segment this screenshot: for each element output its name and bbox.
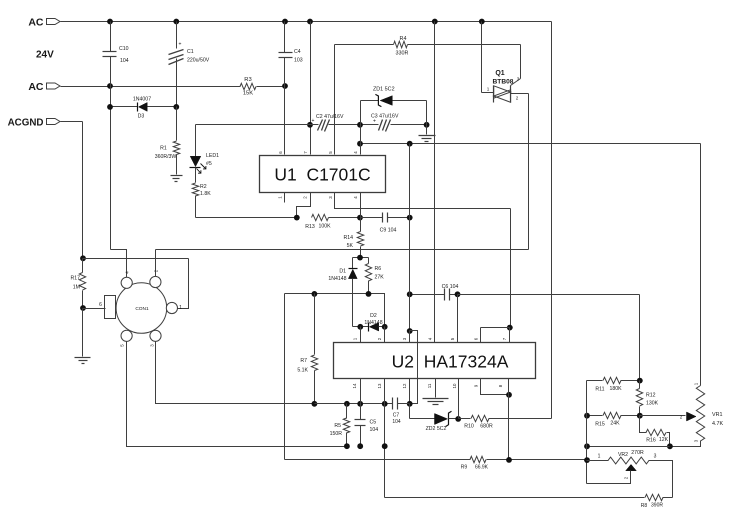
wire U2 pin10 stub: [458, 379, 460, 419]
svg-text:R9: R9: [461, 465, 468, 471]
svg-text:680R: 680R: [480, 424, 493, 430]
resistor R14: [343, 193, 363, 258]
svg-text:ZD1 5C2: ZD1 5C2: [373, 87, 395, 93]
wire AC column to U2 pin4: [434, 22, 436, 343]
resistor R5: [330, 404, 350, 450]
wire CON1 pin5 drop: [127, 342, 347, 447]
svg-text:10: 10: [452, 383, 457, 388]
zener diode ZD2 5C2: [410, 404, 462, 433]
diode D1 1N4148: [328, 258, 357, 327]
wire mid-left column drop: [284, 294, 286, 460]
svg-text:ZD2 5C2: ZD2 5C2: [426, 426, 447, 432]
wire R2 to R13 line: [196, 196, 297, 218]
resistor R7: [297, 294, 317, 407]
wire column 409 with U2 pass-through: [407, 144, 418, 407]
svg-text:+: +: [312, 118, 315, 124]
resistor R13: [305, 214, 363, 230]
svg-text:220u/50V: 220u/50V: [187, 58, 210, 64]
wire AC rail right drop to R10 line: [551, 22, 553, 419]
svg-text:2: 2: [516, 96, 519, 101]
potentiometer VR1 4.7K: [670, 144, 724, 447]
zener diode ZD1 5C2: [361, 87, 427, 125]
wire mid line right segment: [458, 294, 640, 296]
diode D3 1N4007: [107, 97, 179, 120]
svg-text:1: 1: [598, 454, 601, 460]
svg-text:103: 103: [294, 58, 303, 64]
svg-text:330R: 330R: [396, 51, 409, 57]
svg-text:C6 104: C6 104: [442, 284, 459, 290]
svg-text:1N4148: 1N4148: [328, 276, 346, 282]
LED LED1: [190, 125, 220, 174]
wire U2 pin13 column: [384, 379, 386, 498]
svg-text:BTB08: BTB08: [493, 79, 514, 86]
svg-text:390R: 390R: [651, 503, 663, 509]
wire AC top rail: [61, 21, 552, 23]
svg-text:R5: R5: [334, 423, 341, 429]
svg-text:R14: R14: [343, 235, 353, 241]
resistor R1: [155, 107, 180, 175]
svg-text:C3 47u/16V: C3 47u/16V: [371, 114, 399, 120]
capacitor C4: [279, 22, 303, 87]
svg-text:C9 104: C9 104: [380, 228, 397, 234]
svg-text:1.8K: 1.8K: [200, 191, 211, 197]
capacitor C1 (electrolytic): [169, 22, 210, 107]
svg-text:14: 14: [352, 383, 357, 388]
svg-text:24V: 24V: [36, 50, 54, 61]
wire mid right drop: [639, 295, 641, 381]
svg-text:104: 104: [370, 427, 379, 433]
transistor Q1 BTB08 (triac): [487, 70, 520, 103]
svg-text:15K: 15K: [243, 91, 253, 97]
svg-text:360R/3W: 360R/3W: [155, 154, 177, 160]
svg-text:D2: D2: [370, 313, 377, 319]
svg-text:+: +: [179, 42, 182, 48]
resistor R9: [285, 456, 587, 470]
wire U1 pin4 column: [360, 101, 362, 155]
svg-text:12: 12: [402, 383, 407, 388]
wire CON1 pin4 jog: [111, 250, 127, 278]
svg-text:R13: R13: [305, 224, 315, 230]
wire CON1 pin2 to triac: [156, 249, 529, 251]
svg-text:ACGND: ACGND: [8, 118, 44, 129]
wire U1 pin1 stub: [284, 193, 286, 203]
wire U2 pin14 stub: [360, 379, 362, 404]
svg-text:11: 11: [427, 383, 432, 388]
svg-text:3: 3: [654, 454, 657, 460]
wire U1 pin3 drop: [481, 209, 513, 343]
svg-text:100K: 100K: [319, 224, 332, 230]
svg-text:104: 104: [392, 419, 401, 425]
svg-text:R8: R8: [641, 503, 648, 509]
svg-text:12K: 12K: [659, 437, 669, 443]
capacitor C2 (electrolytic): [312, 114, 344, 132]
svg-text:1M: 1M: [73, 285, 80, 291]
svg-text:LED1: LED1: [206, 153, 219, 159]
U2 pass-through wire over box: [417, 343, 419, 379]
svg-text:D1: D1: [339, 269, 346, 275]
resistor R8: [385, 494, 673, 509]
svg-text:130K: 130K: [646, 401, 659, 407]
resistor R6: [365, 258, 384, 294]
svg-text:24K: 24K: [610, 421, 620, 427]
svg-text:R4: R4: [400, 36, 407, 42]
svg-text:104: 104: [120, 58, 129, 64]
U1 top pin labels: [278, 151, 358, 154]
ground at U2 pin11: [423, 399, 449, 405]
capacitor C6: [407, 284, 461, 301]
wire U2 pins8 9 link: [481, 379, 512, 460]
svg-text:R7: R7: [300, 358, 307, 364]
resistor R17: [70, 259, 85, 311]
potentiometer VR2 270R: [587, 450, 673, 498]
svg-text:270R: 270R: [631, 450, 644, 456]
svg-text:150R: 150R: [330, 431, 343, 437]
ground below R17: [75, 309, 91, 364]
diode D2 1N4148: [353, 313, 388, 332]
svg-text:66.9K: 66.9K: [475, 465, 489, 471]
node ACGND (input tag): [8, 118, 60, 129]
svg-text:VR1: VR1: [712, 412, 723, 418]
wire CON1 pin1 link: [178, 259, 189, 309]
svg-text:C1: C1: [187, 49, 194, 55]
wire R17 top line: [80, 122, 188, 262]
resistor R4: [335, 36, 521, 57]
svg-text:R12: R12: [646, 393, 656, 399]
wire U1 pin5 column: [334, 45, 336, 155]
wire mid line left segment: [285, 291, 385, 327]
svg-text:C5: C5: [370, 420, 377, 426]
ground below R1: [171, 176, 183, 182]
wire CON1 pin2 drop: [155, 250, 157, 277]
ground at C3 right: [419, 125, 436, 142]
svg-text:U1 C1701C: U1 C1701C: [274, 165, 370, 185]
wire C7 line: [315, 401, 410, 407]
svg-text:R10: R10: [464, 424, 474, 430]
op-amp U1 C1701C (IC box): [260, 156, 386, 193]
svg-text:1N4007: 1N4007: [133, 97, 151, 103]
label 24V: [36, 50, 54, 61]
wire C10 column lower: [110, 87, 112, 250]
svg-text:R15: R15: [595, 422, 605, 428]
op-amp U2 HA17324A (IC box): [334, 343, 536, 379]
junction dots on AC top rail: [107, 19, 485, 25]
wire pin6 link: [83, 308, 106, 310]
svg-text:AC: AC: [28, 81, 44, 93]
resistor R15: [584, 412, 643, 427]
svg-text:R17: R17: [70, 276, 80, 282]
wire R15 to VR1 wiper: [640, 415, 686, 420]
capacitor C9: [361, 213, 413, 234]
wire U1 pin7 column: [307, 22, 313, 155]
resistor R2: [192, 168, 211, 198]
svg-text:R3: R3: [244, 77, 251, 83]
wire Vcc line y144: [357, 141, 700, 147]
svg-text:VR2: VR2: [618, 452, 628, 458]
svg-text:#5: #5: [206, 161, 212, 167]
resistor R12: [636, 381, 658, 416]
svg-text:R1: R1: [160, 146, 167, 152]
svg-text:C2 47u/16V: C2 47u/16V: [316, 114, 344, 120]
svg-text:2: 2: [680, 415, 683, 420]
wire U2 pin5 stub: [457, 295, 459, 343]
svg-text:5.1K: 5.1K: [297, 368, 308, 374]
wire triac pin1 column: [482, 22, 494, 93]
U2 top pin labels: [353, 337, 508, 340]
wire U1 pin6 column: [284, 87, 286, 155]
wire U2 pin1 stub: [360, 327, 362, 343]
wire U2 pin2 stub: [384, 327, 386, 343]
wire left column right side: [584, 381, 590, 484]
svg-text:13: 13: [377, 383, 382, 388]
svg-text:R6: R6: [375, 266, 382, 272]
capacitor C5: [355, 404, 379, 450]
wire right 446 segment: [584, 443, 669, 449]
resistor R11: [587, 377, 643, 392]
wire U1 pin2 jog: [294, 193, 311, 221]
node AC (second input tag): [28, 81, 60, 93]
wire ACGND stub: [61, 121, 83, 123]
resistor R16: [640, 416, 673, 450]
wire CON1 pin3 drop: [156, 342, 315, 404]
svg-text:AC: AC: [28, 17, 44, 29]
svg-text:180K: 180K: [609, 386, 622, 392]
wire AC2 line: [61, 83, 288, 89]
svg-text:C4: C4: [294, 49, 301, 55]
wire U2 pin11 ground stub: [435, 379, 437, 398]
wire D1 R6 top link: [353, 255, 369, 261]
wire triac pin2 drop: [511, 94, 529, 250]
node AC (top input tag): [28, 17, 60, 29]
connector CON1: [99, 269, 182, 347]
svg-text:27K: 27K: [375, 275, 385, 281]
capacitor C10: [103, 22, 129, 87]
svg-text:5K: 5K: [347, 243, 354, 249]
svg-text:CON1: CON1: [135, 306, 149, 312]
svg-text:R11: R11: [595, 387, 604, 393]
wire U1 pin3 line: [335, 193, 511, 209]
U2 bottom pin labels: [352, 383, 503, 388]
wire gate column: [511, 45, 521, 86]
svg-text:D3: D3: [138, 114, 145, 120]
svg-text:R16: R16: [646, 438, 656, 444]
svg-text:1: 1: [487, 87, 490, 92]
resistor R10: [459, 415, 552, 429]
resistor R3: [240, 77, 256, 97]
svg-text:3: 3: [517, 77, 520, 82]
wire left 446 line: [382, 443, 388, 449]
U1 bottom pin labels: [278, 196, 359, 199]
svg-text:C10: C10: [119, 46, 129, 52]
svg-text:C7: C7: [393, 413, 400, 419]
capacitor C7: [392, 398, 401, 426]
capacitor C3 (electrolytic): [371, 114, 399, 132]
svg-text:Q1: Q1: [495, 70, 504, 77]
svg-text:R2: R2: [200, 184, 207, 190]
svg-text:1: 1: [179, 305, 182, 311]
svg-text:1N4148: 1N4148: [364, 320, 382, 326]
wire LED line to C2 C3: [196, 122, 430, 128]
svg-text:4.7K: 4.7K: [712, 421, 723, 427]
svg-text:U2 HA17324A: U2 HA17324A: [392, 352, 509, 372]
svg-text:6: 6: [99, 302, 102, 308]
